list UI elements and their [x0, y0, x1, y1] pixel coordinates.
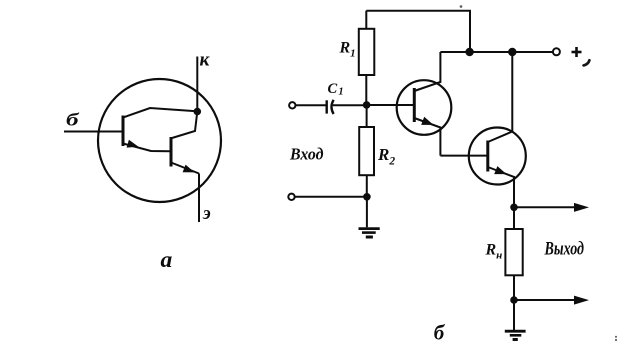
transistor VT2 base bar [486, 141, 489, 172]
wire R1 bottom lead [365, 75, 367, 105]
svg-text:Выход: Выход [544, 239, 584, 259]
svg-text:б: б [434, 321, 446, 345]
VT1 emitter arrow [421, 117, 433, 125]
wire input bottom to node [295, 196, 367, 198]
node top rail junction [465, 48, 473, 56]
transistor T1 base bar [122, 116, 125, 147]
node VT2 collector junction [508, 48, 516, 56]
wire VT1 emitter to VT2 base [440, 155, 487, 157]
wire T1 collector to node [123, 108, 197, 118]
wire VT2 emitter [488, 167, 514, 207]
ground 2 bars [505, 330, 526, 333]
wire input to C1 [296, 104, 327, 106]
T1 emitter arrow [127, 140, 139, 148]
wire VT2 collector [488, 52, 513, 142]
wire base lead (part a) [64, 131, 123, 133]
svg-text:Вход: Вход [289, 144, 324, 163]
svg-text:к: к [200, 51, 210, 71]
ground 2 stem [513, 300, 515, 330]
node collector junction [194, 108, 202, 116]
comma artifact after plus [584, 60, 590, 65]
resistor R1 [359, 29, 375, 75]
terminal plus [553, 48, 560, 55]
capacitor C1 right plate [332, 100, 334, 114]
svg-text:б: б [66, 110, 80, 130]
wire node to T2 collector [172, 112, 197, 139]
wire C1 to base node [333, 104, 367, 106]
wire emitter lead E [198, 174, 200, 223]
darlington envelope circle (part a) [98, 79, 221, 202]
wire VT1 collector [414, 52, 440, 91]
wire output arrow bottom [514, 299, 576, 301]
wire base node to VT1 base [367, 104, 413, 106]
wire RH bottom lead [513, 275, 515, 300]
plus sign [572, 51, 582, 54]
transistor VT1 circle [397, 80, 452, 135]
speck artifact top [460, 5, 463, 8]
svg-text:э: э [202, 204, 211, 224]
wire R2 bottom lead [366, 175, 368, 197]
wire output arrow top [514, 206, 576, 208]
wire T2 emitter diagonal [171, 163, 199, 174]
terminal input bottom [288, 194, 294, 200]
T2 emitter arrow [183, 165, 195, 173]
node output bottom junction [510, 296, 518, 304]
capacitor C1 left plate [326, 100, 328, 113]
transistor VT2 circle [469, 128, 526, 185]
node bottom junction [363, 193, 371, 201]
VT2 emitter arrow [494, 166, 506, 174]
wire collector lead K [196, 57, 198, 112]
wire plus rail [440, 51, 552, 53]
transistor VT1 base bar [413, 88, 416, 122]
wire VT1 emitter [414, 118, 440, 156]
wire top rail [366, 11, 470, 52]
resistor R2 [359, 127, 374, 175]
svg-text:а: а [161, 247, 173, 273]
wire T1 emitter to T2 base [123, 144, 170, 152]
wire R1 top lead [365, 11, 367, 29]
transistor T2 base bar [170, 137, 173, 167]
node base junction [363, 101, 371, 109]
ground 1 stem [366, 197, 368, 228]
colon artifact bottom right [615, 336, 617, 338]
wire R2 top lead [366, 105, 368, 127]
wire RH top lead [513, 207, 515, 229]
resistor RH [505, 229, 522, 275]
ground 1 bars [359, 227, 380, 230]
node output top junction [510, 204, 518, 212]
terminal input top (part b) [289, 102, 295, 108]
